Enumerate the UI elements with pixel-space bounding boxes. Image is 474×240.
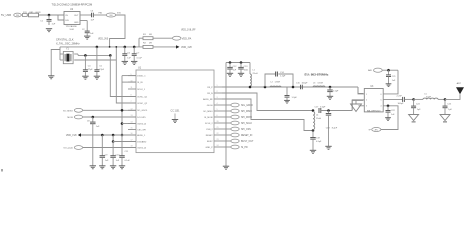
- capacitor C15: [300, 85, 302, 90]
- wire crystal right top: [74, 53, 78, 55]
- svg-text:24: 24: [217, 145, 219, 147]
- svg-text:15: 15: [131, 128, 133, 130]
- IC U1 left pin 11 SCLK_1: [128, 88, 136, 90]
- node: [109, 46, 111, 48]
- svg-text:AVDD_1: AVDD_1: [137, 134, 146, 137]
- balun pin3 right loop: [381, 106, 398, 130]
- node: [264, 86, 267, 89]
- IC U1 left pin 12 SO_GDO1: [128, 109, 136, 111]
- wire: [83, 147, 136, 149]
- svg-text:SLM: SLM: [70, 29, 74, 31]
- capacitor C24: [413, 99, 415, 106]
- wire XOSC2: [116, 47, 136, 103]
- capacitor C13: [240, 63, 242, 68]
- node: [121, 122, 124, 125]
- ground: [94, 75, 100, 77]
- VDD1V8 rail: [81, 134, 136, 136]
- svg-text:BUSY_OUT: BUSY_OUT: [241, 141, 254, 143]
- wire antenna: [445, 94, 460, 99]
- svg-text:DVDD_1: DVDD_1: [137, 76, 146, 78]
- wire EN: [58, 15, 64, 20]
- IC U1 left pin 17 DGUARD: [128, 141, 136, 143]
- wire: [414, 98, 423, 100]
- capacitor C8: [92, 117, 94, 122]
- svg-text:SCLK_2: SCLK_2: [205, 123, 214, 125]
- svg-text:SCLK_1: SCLK_1: [137, 89, 146, 91]
- wire XOSC1: [110, 55, 136, 96]
- IC U1 left pin 14 GDO0_A: [128, 123, 136, 125]
- node: [249, 86, 252, 89]
- capacitor C21: [388, 70, 390, 75]
- svg-text:VDD_1V8_RF: VDD_1V8_RF: [181, 30, 196, 32]
- svg-text:1: 1: [366, 94, 367, 96]
- ground open: [444, 108, 446, 115]
- capacitor C7: [133, 47, 135, 54]
- svg-text:6: 6: [381, 94, 382, 96]
- svg-text:XOSC_Q2: XOSC_Q2: [137, 103, 148, 105]
- IC U1 right pin 24 GND_P: [214, 146, 222, 148]
- wire: [404, 98, 413, 100]
- wire to rail: [110, 15, 125, 47]
- inductor L4: [313, 112, 315, 130]
- svg-text:AVD: AVD: [368, 69, 373, 72]
- ground: [90, 165, 96, 167]
- IC U1 left pin 16 AVDD_1: [128, 134, 136, 136]
- svg-text:0.1uF: 0.1uF: [125, 160, 131, 162]
- svg-text:CC 1101: CC 1101: [171, 110, 181, 112]
- wire: [21, 14, 22, 16]
- svg-text:XOSC_Q1: XOSC_Q1: [137, 96, 148, 98]
- IC U1 right pin 23 BUSY: [214, 140, 222, 142]
- node: [327, 109, 330, 112]
- svg-text:1uF: 1uF: [52, 24, 56, 26]
- svg-text:OUT: OUT: [74, 15, 79, 17]
- IC U1 right pin 20 SCLK_2: [214, 122, 222, 124]
- node: [121, 134, 124, 137]
- svg-text:7: 7: [131, 101, 132, 103]
- IC U1 right pin 21 CSN_2: [214, 128, 222, 130]
- AVDD decoupling rail: [226, 62, 250, 64]
- svg-text:TI2LD-COM/LD 1368EM-RF/PC2M: TI2LD-COM/LD 1368EM-RF/PC2M: [52, 2, 93, 6]
- svg-text:SPI_CSN: SPI_CSN: [241, 129, 251, 131]
- node: [101, 134, 104, 137]
- IC U1 left pin 18 GDO2_A: [128, 147, 136, 149]
- svg-text:SO_MISO: SO_MISO: [203, 111, 213, 113]
- wire crystal right bottom: [74, 59, 116, 61]
- IC U1 right pin 1 RF_P: [214, 86, 222, 88]
- net SPI_MISO oval: [222, 110, 231, 112]
- node: [292, 86, 295, 89]
- ground: [119, 165, 125, 167]
- balun pin3 left stub: [359, 105, 365, 107]
- ground: [122, 60, 128, 62]
- ground: [386, 83, 392, 85]
- svg-text:BUSY: BUSY: [207, 141, 213, 143]
- net SPI_CSN oval: [222, 128, 231, 130]
- svg-text:27pF: 27pF: [99, 69, 104, 71]
- VDD rail: [60, 46, 143, 48]
- node: [387, 69, 390, 72]
- ground open: [413, 108, 415, 115]
- capacitor C12: [229, 63, 231, 68]
- svg-text:1.8nH: 1.8nH: [275, 82, 281, 84]
- net SPI_SCLK oval: [222, 122, 231, 124]
- svg-text:5.6pF: 5.6pF: [320, 106, 326, 108]
- node VIN: [48, 14, 51, 17]
- regulator U2: [64, 12, 80, 25]
- ground: [327, 95, 333, 97]
- IC U1 left pin 8 XOSC_Q1: [128, 96, 136, 98]
- ground: [310, 149, 316, 151]
- ground open: [355, 100, 357, 104]
- node: [112, 134, 115, 137]
- net VDD_3V0 oval: [106, 13, 116, 17]
- wire RF_N step: [222, 93, 313, 111]
- capacitor C1: [48, 15, 50, 20]
- svg-text:4: 4: [217, 103, 218, 105]
- svg-text:21: 21: [217, 127, 219, 129]
- svg-text:VDD_1V8: VDD_1V8: [181, 46, 192, 49]
- capacitor C18: [328, 111, 330, 114]
- wire: [83, 116, 136, 118]
- svg-text:22nH: 22nH: [253, 73, 258, 75]
- node: [387, 105, 390, 108]
- ground left: [51, 50, 60, 76]
- net BUSY_OUT oval: [222, 140, 231, 142]
- ground: [238, 72, 244, 74]
- net VDD_1V8 arrow: [176, 45, 180, 48]
- capacitor C23: [402, 97, 404, 102]
- capacitor C16: [329, 87, 331, 90]
- ground: [227, 72, 233, 74]
- node: [84, 54, 87, 57]
- node: [412, 98, 415, 101]
- IC U1 left pin 9 DVDD_1: [128, 75, 136, 77]
- svg-text:1.5pF: 1.5pF: [333, 90, 339, 92]
- capacitor C22: [387, 106, 389, 111]
- GND bus vertical: [225, 63, 227, 167]
- node: [92, 116, 95, 119]
- svg-text:DCOUPL: DCOUPL: [137, 117, 147, 119]
- IC U1 right pin 3 AVDD_RF: [214, 98, 222, 100]
- node: [312, 129, 315, 132]
- svg-text:22: 22: [217, 133, 219, 135]
- svg-text:EN: EN: [66, 20, 69, 22]
- node: [109, 54, 112, 57]
- wire to balun pin2: [352, 100, 363, 110]
- svg-text:5: 5: [381, 100, 382, 102]
- svg-text:RESET_IN: RESET_IN: [241, 135, 253, 137]
- inductor L5: [423, 98, 438, 99]
- svg-text:8.2pF: 8.2pF: [332, 128, 338, 130]
- IC U1 right pin 22 RESET: [214, 134, 222, 136]
- inductor L1 choke: [249, 63, 251, 75]
- IC U1 left pin 7 XOSC_Q2: [128, 102, 136, 104]
- svg-text:SPI_MISO: SPI_MISO: [241, 111, 252, 113]
- svg-text:4n7H: 4n7H: [426, 96, 431, 98]
- svg-text:8: 8: [131, 95, 132, 97]
- AVDD rail: [382, 69, 398, 71]
- RF path: [222, 86, 358, 88]
- svg-text:X_TAL_OSC_26MHz: X_TAL_OSC_26MHz: [56, 42, 80, 45]
- ferrite bead FB1: [29, 13, 39, 17]
- svg-text:MOSI: MOSI: [67, 117, 73, 119]
- net SPI_MOSI oval: [222, 116, 231, 118]
- port 5V0 oval: [14, 13, 22, 17]
- node: [133, 46, 136, 49]
- svg-text:VDD_PA: VDD_PA: [182, 37, 192, 40]
- IC U1 left pin 10 SI_IN: [128, 81, 136, 83]
- wire: [27, 14, 28, 16]
- svg-text:GDO0_A: GDO0_A: [137, 122, 146, 125]
- svg-text:5: 5: [217, 109, 218, 111]
- capacitor C10: [112, 142, 114, 156]
- svg-text:6: 6: [217, 115, 218, 117]
- node: [229, 61, 232, 64]
- svg-text:GDO2_A: GDO2_A: [137, 146, 146, 149]
- wire: [80, 14, 92, 16]
- svg-text:RESET: RESET: [206, 135, 214, 137]
- svg-text:SI_PD: SI_PD: [241, 147, 248, 149]
- capacitor C3: [91, 13, 93, 18]
- wire crystal left: [60, 53, 63, 55]
- svg-text:1: 1: [217, 85, 218, 87]
- svg-text:0R: 0R: [149, 34, 152, 36]
- resistor R2: [143, 45, 153, 48]
- net GDO0 oval: [222, 104, 231, 106]
- svg-text:GDO0: GDO0: [207, 105, 214, 107]
- svg-text:GND_P: GND_P: [206, 147, 214, 149]
- wire: [93, 14, 106, 16]
- capacitor C25: [444, 99, 446, 106]
- svg-text:23: 23: [217, 139, 219, 141]
- wire to balun pin1: [358, 87, 363, 93]
- svg-text:AVDD_RF: AVDD_RF: [203, 98, 213, 101]
- capacitor C5: [96, 47, 98, 70]
- ground: [223, 165, 229, 167]
- svg-text:EU: 863-870MHz: EU: 863-870MHz: [305, 72, 329, 76]
- capacitor C26 shunt: [286, 87, 288, 96]
- svg-text:SO_pwdn: SO_pwdn: [63, 148, 73, 150]
- ground: [325, 145, 331, 147]
- wire: [83, 109, 136, 111]
- svg-text:27pF: 27pF: [88, 69, 93, 71]
- capacitor C19: [312, 131, 314, 138]
- node: [240, 61, 243, 64]
- svg-text:DGUARD: DGUARD: [137, 140, 147, 143]
- svg-text:3: 3: [366, 106, 367, 108]
- capacitor C14: [275, 72, 277, 77]
- svg-text:0.1uF: 0.1uF: [137, 57, 143, 59]
- svg-text:VDD_3V0: VDD_3V0: [98, 39, 109, 41]
- net VDD_PA oval: [172, 36, 181, 40]
- resistor R1: [139, 37, 143, 39]
- IC U1 left pin 13 DCOUPL: [128, 116, 136, 118]
- inductor L2: [270, 85, 281, 88]
- svg-text:BAL-NRF02D3: BAL-NRF02D3: [367, 110, 381, 113]
- ground: [82, 75, 88, 77]
- capacitor C17: [318, 108, 320, 113]
- capacitor C11: [121, 135, 123, 156]
- capacitor C2: [80, 20, 87, 22]
- svg-text:3: 3: [217, 97, 218, 99]
- svg-text:5V0: 5V0: [16, 15, 19, 17]
- IC U1 body: [136, 70, 214, 153]
- tank top branch: [265, 74, 276, 87]
- svg-text:ANT: ANT: [457, 82, 462, 85]
- svg-text:20: 20: [217, 121, 219, 123]
- wire: [112, 135, 114, 142]
- wire: [321, 110, 352, 112]
- svg-text:GND: GND: [74, 22, 79, 24]
- svg-text:1.2pF: 1.2pF: [292, 97, 298, 99]
- DVDD bus: [121, 76, 123, 135]
- node: [96, 46, 99, 49]
- IC U1 right pin 6 SI_MOSI: [214, 116, 222, 118]
- wire AVDD to pin1: [383, 70, 398, 94]
- svg-text:CRYSTAL_CLK: CRYSTAL_CLK: [56, 39, 74, 42]
- ground: [99, 165, 105, 167]
- wire to balun pin2: [352, 100, 364, 111]
- svg-text:11: 11: [131, 87, 133, 89]
- svg-text:0.5pF: 0.5pF: [316, 141, 322, 143]
- svg-text:3.3nH: 3.3nH: [317, 82, 323, 84]
- svg-text:SI_IN: SI_IN: [137, 82, 143, 84]
- svg-text:2: 2: [217, 91, 218, 93]
- ground: [131, 60, 137, 62]
- ground: [46, 28, 52, 30]
- ground: [284, 99, 290, 101]
- svg-text:RF_N: RF_N: [207, 93, 213, 95]
- IC U1 right pin 5 SO_MISO: [214, 110, 222, 112]
- svg-text:SO_GDO1: SO_GDO1: [137, 110, 148, 112]
- crystal Y1: [63, 52, 73, 64]
- svg-text:3V0: 3V0: [109, 15, 112, 17]
- svg-text:RF_P: RF_P: [207, 87, 213, 89]
- wire RF_N lower: [222, 99, 313, 131]
- svg-text:4: 4: [381, 106, 382, 108]
- IC U1 right pin 2 RF_N: [214, 92, 222, 94]
- svg-text:100pF: 100pF: [398, 103, 405, 105]
- svg-text:SO_MISO: SO_MISO: [63, 110, 73, 112]
- wire: [438, 98, 445, 100]
- svg-text:VDD_1V8: VDD_1V8: [66, 134, 77, 137]
- fuse F1: [22, 14, 27, 17]
- svg-text:SI_MOSI: SI_MOSI: [204, 117, 213, 119]
- IC U1 right pin 4 GDO0: [214, 104, 222, 106]
- corner mark: [1, 169, 3, 172]
- node: [329, 86, 332, 89]
- ground: [84, 35, 90, 37]
- svg-text:SPI_MOSI: SPI_MOSI: [241, 117, 252, 119]
- output chain wire: [383, 98, 402, 100]
- node: [312, 109, 315, 112]
- XOSC rail: [78, 54, 110, 56]
- wire to balun pin1: [358, 87, 364, 94]
- balun U3 body: [364, 89, 383, 112]
- IC U1 left pin 15 CSn_SPI: [128, 129, 136, 131]
- svg-text:0R: 0R: [149, 43, 152, 45]
- node: [121, 109, 124, 112]
- ground: [110, 165, 116, 167]
- capacitor C9: [101, 135, 103, 156]
- net GND2 oval: [222, 146, 231, 148]
- capacitor C4: [84, 55, 86, 69]
- svg-text:15nH: 15nH: [316, 118, 321, 120]
- svg-text:CSN_2: CSN_2: [206, 129, 214, 131]
- node: [115, 46, 117, 48]
- ground: [385, 117, 391, 119]
- IC U1 pad ground: [174, 114, 176, 120]
- svg-text:CSn_SPI: CSn_SPI: [137, 129, 146, 131]
- node: [124, 46, 127, 49]
- svg-text:2: 2: [366, 100, 367, 102]
- inductor L3: [313, 86, 325, 87]
- svg-text:TPS7A0330: TPS7A0330: [66, 25, 78, 28]
- net RESET_IN oval: [222, 134, 231, 136]
- svg-text:2.2nF: 2.2nF: [397, 95, 403, 97]
- svg-text:100pF: 100pF: [302, 82, 309, 84]
- svg-text:SIG_GDO0: SIG_GDO0: [241, 105, 253, 107]
- node: [444, 98, 447, 101]
- svg-text:1.2pF: 1.2pF: [280, 76, 286, 78]
- svg-text:5V_USB: 5V_USB: [1, 13, 11, 17]
- svg-text:SPI_SCLK: SPI_SCLK: [241, 123, 252, 125]
- capacitor C6: [124, 47, 126, 54]
